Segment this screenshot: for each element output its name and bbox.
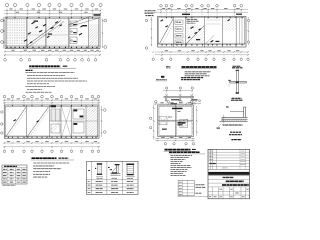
plan2 right axis bubbles [104, 109, 107, 112]
notes3 line 3 [185, 75, 210, 77]
plan1 wall column dots top [6, 17, 7, 18]
plan1 title scale text [63, 66, 68, 67]
plan4 cross wall vertical [175, 105, 177, 137]
title3 text [182, 66, 217, 68]
plan4 cross ticks [176, 107, 177, 109]
pile table columns [7, 168, 9, 184]
plan3 bay2 equipment stack [175, 20, 183, 24]
detail table row lines [87, 179, 139, 181]
plan2 outline outer wall [4, 105, 99, 138]
plan1 interior column line C [68, 17, 70, 49]
plan2 bay1 arrow [14, 120, 17, 121]
step detail left dim [223, 115, 225, 124]
plan2 left axis bubbles [1, 111, 3, 113]
plan4 outline inner wall [159, 106, 192, 135]
pile table cell texts [3, 168, 7, 170]
signoff right label 2 [196, 186, 206, 188]
plan3 left axis bubbles [145, 19, 147, 21]
notes1 line 2 [27, 74, 65, 76]
detail table row labels [88, 181, 91, 183]
notes3 dark line 1 [181, 77, 203, 79]
notes1 line 3 [27, 77, 78, 79]
plan1 axis bubbles top row [5, 3, 8, 6]
detail drawing barrel [127, 165, 134, 176]
plan4 right dimension [196, 106, 198, 136]
plan4 title [165, 149, 191, 151]
plan2 axis bubbles top row [3, 95, 6, 98]
detail table border [87, 161, 139, 194]
plan1 leader lines to top-right label [69, 16, 91, 25]
legend dark box [161, 76, 164, 78]
step detail wall top tick [243, 106, 247, 108]
plan3 bay6 verticals [239, 18, 241, 45]
t-detail title below [232, 97, 242, 99]
beam detail beam lines [164, 96, 195, 98]
plan3 interior column line B [184, 17, 186, 48]
plan3 axis bubbles top row [160, 4, 163, 7]
title block outer border [208, 149, 250, 199]
plan4 right cell box [180, 119, 188, 127]
signoff bottom line [177, 195, 208, 197]
notes4 line 5 [171, 163, 181, 165]
plan3 axis bubbles bottom row [152, 58, 154, 60]
notes1 heading [26, 69, 33, 71]
title block bottom grid texts [220, 188, 222, 190]
detail table left column [90, 161, 92, 194]
notes4 line 8 [171, 169, 188, 171]
plan1 top-right leader label [94, 14, 101, 16]
plan4 top label [171, 99, 179, 100]
title block revision row texts [209, 150, 213, 152]
beam detail bottom label [171, 103, 178, 104]
plan4 center tick texts [178, 111, 182, 113]
notes2 title underline [31, 159, 74, 161]
t-detail center dark mark [236, 82, 239, 83]
plan3 label above top edge [182, 14, 190, 15]
plan1 ramp arrow labels [32, 22, 35, 24]
plan1 title text [29, 65, 60, 67]
plan4 top dimension [153, 103, 196, 105]
plan2 bay3 stair cell [51, 109, 60, 121]
plan2 mid horizontal line [50, 120, 98, 122]
title block bottom grid columns [211, 187, 213, 199]
title block project type text [223, 176, 234, 178]
notes4 line 3 [171, 159, 186, 161]
notes1 line 8 [26, 91, 52, 93]
plan1 pump symbols [71, 23, 73, 25]
plan2 bottom wall inner line [4, 135, 99, 137]
plan3 interior column line C [204, 17, 206, 48]
plan1 right vertical dimension [102, 18, 104, 48]
plan1 bay1 brick hatch [6, 19, 8, 46]
plan1 bottom wall inner line [5, 45, 100, 47]
plan4 bottom dimension upper [155, 138, 195, 140]
detail table header marks [88, 169, 90, 172]
t-detail vertical pile [235, 71, 237, 94]
title block revision note text [210, 163, 217, 165]
plan4 perimeter wall ticks [160, 105, 162, 106]
plan1 bottom dimension line lower [4, 54, 101, 56]
plan4 cross wall horizontal [158, 119, 193, 121]
plan4 left axis bubbles [150, 117, 152, 119]
t-detail left tick [228, 79, 231, 82]
signoff cell texts [179, 181, 182, 183]
plan1 bay4 equipment boxes [70, 21, 77, 26]
step detail text row below [223, 124, 243, 126]
beam detail top hatch marks [165, 94, 168, 96]
plan3 interior column line A [173, 17, 175, 48]
plan2 bay3 lower rect [51, 124, 60, 133]
notes1 line 5 [27, 83, 49, 85]
pile table footnote [3, 184, 16, 186]
plan1 interior column line B [45, 17, 47, 49]
plan1 mid walkway line [27, 34, 69, 36]
signoff grid left column [182, 180, 184, 195]
pile table title row [4, 165, 17, 167]
title block revision mid texts [241, 161, 246, 163]
signoff right label 3 [196, 192, 202, 194]
plan3 bottom dimension line upper [155, 51, 249, 53]
plan2 interior column line B [49, 105, 51, 138]
plan3 outline outer wall [158, 17, 247, 48]
title block company band gray edge [208, 175, 249, 176]
notes2 title text [32, 157, 57, 159]
plan2 bay2 ramp diagonal [27, 107, 48, 137]
title3 underline [181, 68, 217, 70]
plan2 bay4 cross [62, 107, 72, 138]
notes3 dark line 2 [181, 79, 200, 81]
legend tiny text [166, 66, 171, 68]
plan1 bay5 hatch [89, 24, 98, 47]
plan2 interior column line C [60, 105, 62, 138]
plan2 wall column dots bottom [8, 137, 9, 138]
beam detail column stubs [165, 98, 167, 101]
detail table column lines [106, 161, 108, 194]
plan2 dark wall block top [51, 105, 57, 107]
plan3 bottom dimension line lower [155, 54, 249, 56]
plan2 wall column dots top [12, 105, 13, 106]
plan1 axis bubbles bottom row [4, 59, 7, 62]
plan3 top dimension line upper [157, 9, 248, 11]
plan4 corner leader [190, 101, 197, 105]
plan2 bay1 ramp diagonal [6, 107, 26, 137]
signoff grid border [178, 180, 194, 195]
notes4 line 9 [171, 171, 187, 173]
plan3 bay5 hatch [223, 18, 236, 31]
plan2 bay5 boxes [73, 109, 84, 119]
plan1 ramp diagonal long [26, 21, 62, 47]
title block revision row lines [208, 151, 250, 153]
plan1 outline outer wall [5, 17, 100, 49]
plan1 wall column dots bottom [6, 47, 7, 48]
plan2 axis bubbles bottom row [3, 150, 5, 152]
legend label underlined [156, 79, 167, 81]
notes4 line 7 [171, 167, 192, 169]
plan3 interior column line D [222, 17, 224, 48]
plan3 bay4 diagonal [205, 36, 214, 45]
t-detail title above [233, 65, 242, 67]
plan4 title underline [164, 150, 197, 152]
plan3 bay1 diagonals [160, 19, 174, 44]
notes2 line 2 [33, 165, 54, 167]
plan2 bottom dimension line lower [3, 146, 100, 148]
plan4 left dimension [153, 105, 155, 140]
step detail wall [243, 107, 245, 119]
notes4 line 6 [171, 165, 191, 167]
plan4 top label [172, 108, 183, 110]
plan1 dimension line lower [4, 13, 101, 15]
plan2 top dimension line upper [3, 99, 100, 101]
plan1 interior column line A [26, 17, 28, 49]
signoff grid mid column [187, 180, 189, 195]
plan2 top dimension line lower [3, 102, 100, 104]
plan2 right vertical dimension [101, 106, 103, 137]
title block drawing name text [222, 184, 249, 186]
plan1 dimension line upper [4, 10, 101, 12]
plan1 ramp diagonal long 2 [29, 22, 65, 48]
notes4 underline [169, 153, 206, 155]
title block company dark band [208, 172, 249, 175]
detail table cell texts [96, 181, 103, 183]
beam detail dimension [163, 90, 192, 92]
notes3 line 2 [185, 73, 207, 75]
plan4 labels [178, 122, 186, 124]
plan1 left axis bubbles [1, 19, 4, 22]
plan3 wall column dots top [166, 17, 167, 18]
plan1 right axis bubbles [104, 19, 107, 22]
plan1 bay2 diagonal hatch [27, 19, 45, 47]
notes2 line 3 [33, 168, 61, 170]
step detail scale text [231, 139, 241, 141]
step detail title below [230, 131, 241, 133]
beam detail right mini [192, 100, 194, 102]
notes1 line 1 [26, 72, 75, 74]
plan1 bay4 labels [73, 24, 76, 25]
plan4 bottom dimension lower [155, 140, 195, 142]
plan2 bay6 diagonal hatch [87, 107, 98, 137]
plan3 bay3 text cluster [187, 18, 198, 20]
detail drawing corner section [111, 173, 121, 175]
notes4 line 4 [171, 161, 183, 163]
notes4 line 2 [171, 157, 190, 159]
notes2 line 4 [33, 171, 50, 173]
step detail slab [222, 117, 248, 121]
step detail slab hatch [223, 119, 225, 121]
plan3 outline inner wall [159, 18, 245, 45]
plan4 axis bubbles bottom row [164, 143, 166, 145]
t-detail foot [236, 92, 239, 93]
pile table rows [2, 170, 27, 172]
plan1 interior column line D [88, 17, 90, 49]
notes1 line 7 [27, 88, 42, 90]
plan3 right axis bubbles [248, 19, 250, 21]
title block revision column lines [210, 149, 212, 169]
step detail bottom left mark [217, 128, 221, 129]
plan2 outline inner wall [6, 106, 98, 137]
plan3 left vertical dimension [151, 17, 153, 46]
title block project name text [226, 180, 244, 182]
notes1 line 4 [27, 80, 87, 82]
plan2 interior column line E [85, 105, 87, 138]
title block revision heavy line [208, 168, 250, 170]
notes4 line 11 [171, 175, 186, 177]
notes4 line 10 [171, 173, 184, 175]
plan1 bottom dimension line upper [4, 51, 101, 53]
signoff right label 1 [196, 184, 205, 186]
t-detail bar hatch [231, 81, 232, 83]
step detail mid step line [230, 111, 244, 113]
plan1 title underline [29, 67, 76, 69]
notes2 line 6 [33, 176, 47, 178]
signoff grid rows [178, 183, 194, 185]
plan2 interior column line D [71, 105, 73, 138]
plan3 wall column dots bottom [161, 44, 162, 45]
plan3 top dimension line lower [157, 11, 248, 13]
plan1 left vertical dimension [3, 17, 5, 49]
t-detail top cap [236, 70, 239, 71]
plan2 interior column line A [26, 105, 28, 138]
plan1 outline inner wall [6, 18, 98, 47]
plan4 outline outer wall [158, 105, 193, 137]
detail drawing pile elevation [98, 165, 102, 175]
plan2 bottom dimension line upper [3, 142, 100, 144]
plan2 bay2 arrow [37, 121, 40, 122]
plan3 corner legend text [145, 10, 156, 12]
notes2 line 5 [33, 173, 50, 175]
notes4 title [169, 151, 200, 153]
t-detail cross bar [230, 80, 247, 82]
notes2 line 1 [33, 162, 69, 164]
plan4 axis bubbles top row [155, 101, 157, 103]
pile table border [2, 165, 27, 184]
plan4 left cell box [159, 117, 167, 125]
notes1 line 6 [26, 86, 56, 88]
step detail upper dim tick [226, 107, 228, 109]
plan1 bay3 diagonal hatch [46, 19, 68, 47]
plan3 bottom wall inner line [158, 42, 247, 44]
plan3 bay3 diagonal hatch [186, 25, 204, 44]
plan3 right vertical dimension [247, 17, 249, 45]
plan3 interior column line E [235, 17, 237, 48]
notes3 line 1 [185, 71, 211, 73]
beam detail axis bubbles [166, 87, 168, 89]
notes4 line 1 [171, 155, 193, 157]
title block bottom grid rows [208, 190, 250, 192]
